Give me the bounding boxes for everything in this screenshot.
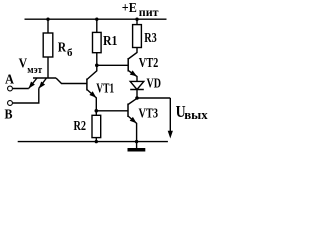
transistor VMET emitter 2 — [39, 78, 47, 88]
wire R2 bottom lead — [95, 138, 97, 142]
arrow VMET emitter 1 — [29, 82, 35, 89]
ground stub — [136, 142, 138, 148]
resistor R2 — [92, 115, 101, 137]
svg-text:VD: VD — [147, 77, 162, 92]
svg-text:B: B — [5, 108, 13, 123]
svg-text:R3: R3 — [144, 31, 157, 46]
svg-text:V: V — [19, 56, 28, 71]
node B terminal circle — [8, 101, 13, 106]
wire R3 top lead — [136, 19, 138, 24]
svg-text:R2: R2 — [74, 119, 87, 134]
transistor VT1 collector — [87, 53, 97, 80]
junction dot VT3 base node — [95, 109, 99, 113]
transistor VMET collector — [56, 78, 87, 84]
junction dot rail R3 — [135, 18, 138, 21]
wire node to VT2 base — [97, 64, 128, 66]
junction dot rail R1 — [95, 18, 98, 21]
transistor VMET base bar — [33, 77, 56, 79]
arrow VT3 emitter — [130, 117, 137, 123]
transistor VT1 emitter — [87, 90, 96, 116]
wire R1 top lead — [96, 19, 98, 32]
ground bar — [128, 148, 146, 152]
transistor VT2 collector — [128, 48, 137, 60]
svg-text:+E: +E — [122, 1, 137, 16]
svg-text:мэт: мэт — [27, 65, 42, 76]
svg-text:VT2: VT2 — [139, 56, 159, 71]
wire bottom rail — [18, 141, 168, 143]
svg-text:пит: пит — [139, 5, 159, 19]
svg-text:R: R — [58, 41, 67, 56]
svg-text:VT1: VT1 — [96, 81, 114, 96]
svg-text:вых: вых — [184, 107, 208, 122]
svg-text:A: A — [5, 73, 15, 88]
wire Rb bottom lead to MET base — [47, 57, 49, 78]
transistor VT3 base bar — [127, 104, 129, 118]
junction dot R2 bottom — [95, 140, 98, 143]
arrow VMET emitter 2 — [39, 82, 45, 89]
wire top power rail — [25, 18, 167, 20]
wire Uvyh arrow line — [169, 98, 171, 135]
transistor VT3 collector — [128, 98, 137, 104]
junction dot ground node — [135, 140, 138, 143]
diode VD — [130, 81, 144, 89]
svg-text:VT3: VT3 — [139, 107, 159, 122]
wire output node to Uvyh — [137, 97, 170, 99]
transistor VT2 emitter — [128, 71, 137, 82]
transistor VT1 base bar — [86, 79, 88, 91]
wire input A — [13, 88, 29, 90]
wire VT1 emitter node to VT3 base — [96, 110, 128, 112]
node A terminal circle — [8, 86, 13, 91]
wire Rb top lead — [47, 19, 49, 33]
svg-text:R1: R1 — [103, 34, 118, 49]
resistor R1 — [93, 32, 102, 52]
junction dot rail Rb — [46, 18, 49, 21]
transistor VT2 base bar — [127, 58, 129, 72]
resistor R3 — [133, 25, 142, 48]
svg-text:б: б — [67, 47, 73, 59]
arrow VT2 emitter — [130, 70, 137, 76]
arrow VT1 emitter — [89, 91, 96, 98]
junction dot VT2 base node — [95, 64, 99, 68]
resistor Rb — [43, 33, 53, 57]
junction dot output node — [135, 96, 139, 100]
transistor VMET emitter 1 — [29, 78, 37, 88]
transistor VT3 emitter — [128, 116, 137, 142]
arrow Uvyh voltage — [168, 131, 173, 139]
wire input B — [13, 88, 39, 103]
